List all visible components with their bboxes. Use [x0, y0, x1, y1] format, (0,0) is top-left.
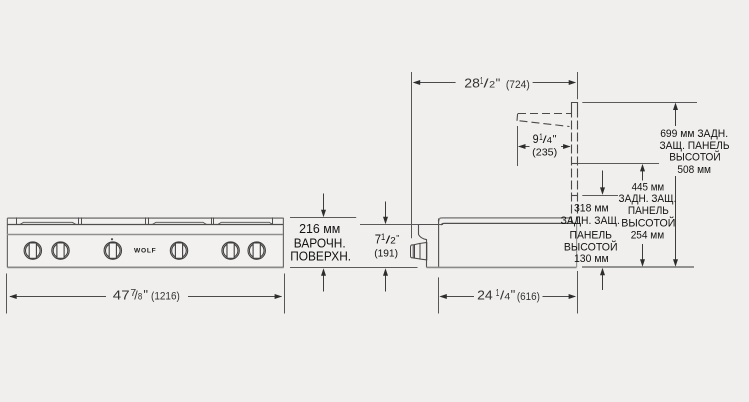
svg-text:508 мм: 508 мм [677, 164, 711, 176]
svg-text:": " [143, 287, 148, 302]
backguard dashed (installed panel) [571, 103, 577, 224]
svg-text:130 мм: 130 мм [574, 253, 609, 265]
svg-text:(616): (616) [517, 291, 540, 303]
rangetop front view body outline [7, 218, 284, 268]
svg-text:": " [496, 75, 501, 90]
dimension 24 1/4 (616) body depth [439, 271, 578, 314]
knob 2 [52, 242, 69, 259]
grate end caps and dividers [17, 218, 273, 225]
grate 3 [218, 222, 273, 224]
svg-text:2: 2 [489, 80, 495, 90]
svg-text:(191): (191) [374, 248, 398, 259]
side view body [419, 218, 577, 268]
svg-text:ПАНЕЛЬ: ПАНЕЛЬ [570, 229, 613, 241]
svg-text:ЗАДН. ЗАЩ.: ЗАДН. ЗАЩ. [619, 193, 677, 205]
svg-text:24: 24 [477, 288, 493, 302]
side view control knob [411, 243, 427, 260]
svg-text:ЗАЩ. ПАНЕЛЬ: ЗАЩ. ПАНЕЛЬ [660, 140, 730, 152]
svg-text:(235): (235) [532, 148, 557, 159]
dimension 7 1/2 (191) control panel height [360, 202, 443, 292]
svg-text:216 мм: 216 мм [299, 221, 340, 236]
svg-text:ЗАДН. ЗАЩ.: ЗАДН. ЗАЩ. [561, 215, 620, 227]
dimension 47 7/8 (1216) [7, 274, 285, 314]
svg-text:": " [396, 233, 399, 243]
dimension 445 mm with 254 mm backguard [578, 164, 676, 267]
svg-text:254 мм: 254 мм [631, 230, 665, 242]
svg-text:1: 1 [381, 232, 385, 243]
grate 2 [153, 222, 207, 224]
svg-text:ВЫСОТОЙ: ВЫСОТОЙ [669, 151, 721, 164]
svg-text:(1216): (1216) [151, 291, 180, 303]
knob 3 [104, 242, 121, 259]
svg-text:ВЫСОТОЙ: ВЫСОТОЙ [621, 217, 675, 230]
grate 1 [20, 222, 76, 224]
svg-text:445 мм: 445 мм [632, 182, 665, 194]
dimension 699 mm with 508 mm backguard [582, 103, 729, 267]
dimension 28 1/2 (724) overall depth [412, 72, 578, 238]
dimension 318 mm with 130 mm backguard [561, 171, 620, 291]
knob 5 [222, 242, 239, 259]
svg-text:ПАНЕЛЬ: ПАНЕЛЬ [628, 205, 669, 217]
svg-text:8: 8 [138, 291, 142, 301]
dimension 9 1/4 (235) shelf depth [518, 126, 571, 166]
svg-text:699 мм ЗАДН.: 699 мм ЗАДН. [660, 128, 728, 140]
high shelf dashed [517, 114, 571, 127]
svg-text:9: 9 [533, 133, 539, 146]
svg-text:4: 4 [504, 291, 510, 301]
svg-text:(724): (724) [506, 79, 530, 91]
svg-text:318 мм: 318 мм [574, 203, 609, 215]
svg-text:": " [511, 287, 516, 302]
knob 6 [248, 242, 265, 259]
svg-text:WOLF: WOLF [134, 247, 156, 254]
knob 4 [170, 242, 187, 259]
svg-text:ПОВЕРХН.: ПОВЕРХН. [290, 248, 351, 263]
svg-text:": " [553, 134, 557, 146]
svg-text:28: 28 [464, 77, 480, 91]
annotation 216 mm cooking surface height [290, 194, 418, 292]
svg-text:2: 2 [390, 236, 396, 247]
base line of height dimensions [582, 266, 694, 268]
svg-text:ВЫСОТОЙ: ВЫСОТОЙ [564, 241, 618, 254]
svg-text:47: 47 [113, 288, 130, 302]
svg-text:4: 4 [547, 135, 552, 145]
knob 1 [24, 242, 41, 259]
knob indicator dot [111, 238, 113, 240]
